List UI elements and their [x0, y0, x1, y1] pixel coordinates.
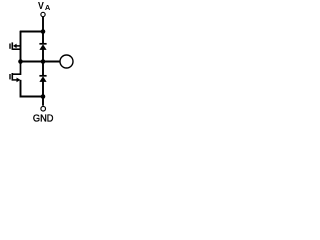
wire VA terminal to node A: [42, 17, 44, 44]
wire Q2 source to GND node: [21, 80, 44, 97]
node GND (junction dot): [41, 94, 46, 99]
node OUT-left (junction dot): [18, 59, 23, 64]
motor terminal (large circle): [60, 55, 73, 68]
wire D2 anode to GND terminal: [42, 82, 44, 106]
label VA: [38, 1, 51, 12]
wire Q1 drain-source vertical: [20, 31, 22, 62]
wire node A to Q1 drain: [20, 31, 43, 33]
svg-text:GND: GND: [33, 113, 54, 123]
diode D1 (body diode, cathode up): [39, 44, 46, 50]
wire Q2 drain: [12, 62, 20, 75]
diode D2 (body diode, cathode up): [39, 76, 46, 82]
node OUT-center (junction dot): [41, 59, 46, 64]
node A (junction dot top): [41, 29, 46, 34]
terminal VA (top circle): [41, 12, 45, 16]
transistor Q1 (high-side): [10, 42, 21, 49]
wire D1 anode to node OUT and down to D2 cathode: [42, 50, 44, 76]
svg-text:V: V: [38, 1, 44, 12]
wire output node to motor terminal: [21, 61, 61, 63]
terminal GND (bottom circle): [41, 106, 46, 111]
transistor Q2 (low-side): [10, 73, 20, 82]
svg-text:A: A: [45, 3, 51, 12]
